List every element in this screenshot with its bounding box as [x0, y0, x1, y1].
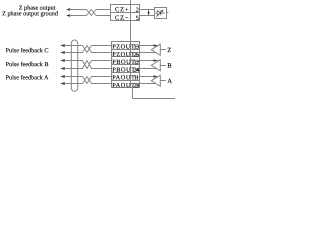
- arrow Z phase output: [66, 8, 70, 11]
- wire above CZ block: [130, 0, 132, 4]
- opto box: [155, 8, 167, 19]
- wire 23 to receiver A: [139, 83, 156, 85]
- svg-text:5: 5: [136, 15, 139, 22]
- wire Z phase output: [69, 9, 86, 11]
- svg-text:A: A: [167, 78, 172, 85]
- wire twist to PBOUT-: [92, 60, 112, 62]
- svg-text:CZ−: CZ−: [115, 15, 129, 22]
- wire right of opto: [166, 12, 168, 14]
- arrow pulse feedback C wire 1: [60, 44, 65, 47]
- wire twist to PBOUT+: [92, 68, 112, 70]
- receiver A: [151, 75, 160, 86]
- twisted pair A: [83, 77, 92, 84]
- arrow pulse feedback A wire 1: [60, 75, 65, 78]
- wire receiver Z output: [160, 49, 166, 51]
- svg-text:Pulse feedback A: Pulse feedback A: [6, 74, 49, 81]
- wire twist to CZ+: [96, 9, 111, 11]
- twisted pair B: [83, 61, 92, 69]
- svg-text:23: 23: [133, 82, 139, 89]
- arrow into receiver A: [154, 75, 157, 78]
- svg-text:13: 13: [133, 44, 139, 51]
- connector block CZ: [111, 5, 140, 21]
- cable shield capsule: [71, 40, 77, 91]
- svg-text:11: 11: [134, 75, 139, 82]
- twisted pair C: [83, 46, 92, 53]
- wire pulse feedback B to twist: [64, 60, 83, 62]
- opto light arrow: [156, 11, 162, 17]
- node arrows: [148, 11, 150, 14]
- svg-text:2: 2: [136, 7, 139, 14]
- receiver B: [151, 60, 160, 71]
- wire pin 2 to opto: [139, 9, 155, 11]
- wire twist to PAOUT+: [92, 83, 112, 85]
- wire pulse feedback C to twist: [64, 52, 83, 54]
- arrow pulse feedback B wire 2: [60, 67, 65, 70]
- arrow pulse feedback A wire 2: [60, 82, 65, 85]
- arrow pulse feedback C wire 2: [60, 51, 65, 54]
- twisted pair CZ: [87, 10, 97, 16]
- wire twist to CZ-: [96, 15, 111, 17]
- svg-text:B: B: [167, 63, 172, 70]
- svg-text:12: 12: [133, 59, 139, 66]
- wire twist to PZOUT-: [92, 45, 112, 47]
- wire 13 to receiver Z: [139, 45, 159, 47]
- wire 11 to receiver A: [139, 76, 159, 78]
- svg-text:Pulse feedback B: Pulse feedback B: [6, 61, 49, 68]
- opto LED diode: [156, 11, 165, 16]
- connector block P: [112, 42, 140, 88]
- wire receiver A output: [160, 80, 166, 82]
- wire pulse feedback C to twist: [64, 45, 83, 47]
- receiver Z: [151, 44, 160, 55]
- wire 25 to receiver Z: [139, 52, 156, 54]
- node link: [148, 10, 150, 16]
- arrow pulse feedback B wire 1: [60, 59, 65, 62]
- shield ground wire: [133, 87, 176, 99]
- wire pulse feedback B to twist: [64, 68, 83, 70]
- wire twist to PZOUT+: [92, 52, 112, 54]
- arrow into receiver Z: [154, 44, 157, 47]
- svg-text:Z phase output ground: Z phase output ground: [2, 10, 59, 17]
- wire pulse feedback A to twist: [64, 83, 83, 85]
- wire 12 to receiver B: [139, 60, 159, 62]
- wire 24 to receiver B: [139, 68, 157, 70]
- svg-text:25: 25: [133, 51, 139, 58]
- svg-text:Pulse feedback C: Pulse feedback C: [6, 47, 49, 54]
- wire pulse feedback A to twist: [64, 76, 83, 78]
- wire Z phase output ground: [69, 15, 86, 17]
- svg-text:Z: Z: [167, 47, 171, 54]
- wire receiver B output: [160, 65, 166, 67]
- wire twist to PAOUT-: [92, 76, 112, 78]
- arrow Z phase output ground: [66, 14, 70, 17]
- wire pin 5 to opto: [139, 15, 155, 17]
- arrow into receiver B: [154, 59, 157, 62]
- svg-text:CZ+: CZ+: [115, 6, 129, 13]
- wire between blocks: [130, 21, 132, 42]
